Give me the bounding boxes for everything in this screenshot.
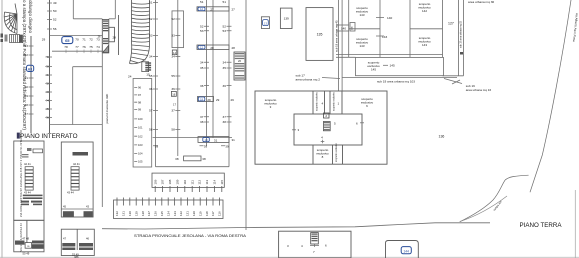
svg-text:34: 34 <box>223 61 227 65</box>
svg-text:31: 31 <box>232 138 236 142</box>
svg-text:91: 91 <box>25 76 29 80</box>
svg-text:70: 70 <box>75 38 79 42</box>
svg-text:47: 47 <box>63 237 66 241</box>
rounded box D with stamp 144 <box>386 241 419 258</box>
svg-text:12: 12 <box>200 7 203 11</box>
svg-text:27: 27 <box>210 7 214 11</box>
svg-text:37: 37 <box>200 115 204 119</box>
svg-text:scoperto esclusivo: scoperto esclusivo <box>335 142 338 162</box>
svg-text:50 49: 50 49 <box>23 251 30 255</box>
bottom building C <box>279 231 351 258</box>
svg-text:114: 114 <box>213 179 217 184</box>
svg-text:28: 28 <box>232 46 236 50</box>
svg-text:58: 58 <box>149 128 153 132</box>
box 139 <box>280 8 292 28</box>
svg-text:92: 92 <box>25 53 29 57</box>
svg-text:26: 26 <box>238 59 241 63</box>
left edge dark marks <box>1 34 8 43</box>
garage column 2 <box>61 142 94 256</box>
svg-text:130: 130 <box>128 211 132 216</box>
svg-text:108: 108 <box>168 179 172 184</box>
svg-text:o a stampa (297x420)in Formato: o a stampa (297x420)in Formato standard … <box>22 0 27 130</box>
leader to sub19 mq16 <box>444 79 462 85</box>
svg-text:89: 89 <box>25 94 29 98</box>
box 12-28 <box>197 45 235 50</box>
long vertical x=102 <box>101 35 103 207</box>
svg-text:127: 127 <box>147 211 151 216</box>
svg-text:52: 52 <box>149 17 153 21</box>
hatched stack + 15 <box>145 62 151 70</box>
svg-text:124: 124 <box>166 211 170 216</box>
svg-text:55: 55 <box>171 74 175 78</box>
building B outer <box>255 91 387 164</box>
svg-text:109: 109 <box>176 179 180 184</box>
svg-text:45: 45 <box>63 205 66 209</box>
svg-text:36: 36 <box>149 87 153 91</box>
svg-text:105: 105 <box>138 160 143 164</box>
svg-text:14: 14 <box>173 51 176 55</box>
svg-text:97: 97 <box>138 93 141 97</box>
svg-text:90: 90 <box>25 85 29 89</box>
bottom strip labels <box>316 148 329 159</box>
svg-text:area urbana mq 16: area urbana mq 16 <box>466 88 492 92</box>
svg-text:140: 140 <box>341 26 346 30</box>
svg-text:58: 58 <box>171 128 175 132</box>
svg-text:96: 96 <box>138 86 141 90</box>
svg-text:51: 51 <box>223 0 227 4</box>
parking strip 1 <box>152 173 224 192</box>
svg-text:17: 17 <box>173 103 176 107</box>
svg-text:12: 12 <box>200 46 203 50</box>
corridor horizontals <box>50 50 104 125</box>
box 135 <box>306 8 333 61</box>
svg-text:121: 121 <box>186 211 190 216</box>
svg-text:46: 46 <box>86 237 89 241</box>
stair bottom steps <box>10 35 23 43</box>
box 19-31 <box>198 137 235 143</box>
svg-text:38: 38 <box>223 120 227 124</box>
stair core block <box>102 15 118 55</box>
upper corridor outline <box>50 0 116 35</box>
svg-text:52: 52 <box>200 25 204 29</box>
svg-text:78: 78 <box>64 45 68 49</box>
svg-text:39: 39 <box>204 144 208 148</box>
svg-text:35: 35 <box>223 66 227 70</box>
svg-text:38: 38 <box>200 120 204 124</box>
svg-text:36: 36 <box>171 87 175 91</box>
svg-text:oblungo disegno: oblungo disegno <box>28 0 33 33</box>
svg-text:38: 38 <box>175 157 179 161</box>
svg-text:111: 111 <box>190 180 194 185</box>
svg-text:42: 42 <box>45 82 49 86</box>
right pair column ticks and labels <box>204 26 232 122</box>
svg-text:PIANO INTERRATO: PIANO INTERRATO <box>20 133 78 140</box>
svg-text:scoperto esclusivo: scoperto esclusivo <box>316 91 319 111</box>
svg-text:117: 117 <box>211 211 215 216</box>
corridor right line with parcel ticks <box>47 0 52 133</box>
svg-text:131: 131 <box>122 211 126 216</box>
svg-text:120: 120 <box>192 211 196 216</box>
svg-text:57: 57 <box>149 109 153 113</box>
number row 70-73 <box>75 38 100 42</box>
svg-text:34: 34 <box>149 55 153 59</box>
svg-text:142: 142 <box>422 9 427 13</box>
box 12-27 <box>197 7 235 12</box>
svg-text:51: 51 <box>200 0 204 4</box>
svg-text:29: 29 <box>231 98 235 102</box>
svg-text:72: 72 <box>89 38 93 42</box>
svg-text:43 44: 43 44 <box>24 190 31 194</box>
svg-text:27: 27 <box>232 7 236 11</box>
svg-text:143: 143 <box>422 43 427 47</box>
svg-text:28: 28 <box>113 36 117 40</box>
ticks 39 <box>153 145 225 147</box>
svg-text:29: 29 <box>216 98 220 102</box>
svg-text:34: 34 <box>200 61 204 65</box>
svg-text:area urbana mq 2: area urbana mq 2 <box>296 77 321 81</box>
svg-text:39: 39 <box>225 144 229 148</box>
svg-text:sub 19 area urbana mq 103: sub 19 area urbana mq 103 <box>377 79 415 83</box>
svg-text:43: 43 <box>86 205 89 209</box>
svg-text:126: 126 <box>154 211 158 216</box>
svg-text:53: 53 <box>200 29 204 33</box>
mid building vertical lines <box>153 0 246 230</box>
svg-text:101: 101 <box>138 126 143 130</box>
svg-text:145: 145 <box>371 67 376 71</box>
col1 lower content <box>15 241 44 249</box>
svg-text:100: 100 <box>138 117 143 121</box>
garage column 1 <box>14 141 44 252</box>
svg-text:36: 36 <box>200 84 204 88</box>
svg-text:45: 45 <box>45 107 49 111</box>
svg-text:41: 41 <box>45 73 49 77</box>
svg-text:135: 135 <box>317 33 323 37</box>
svg-text:110: 110 <box>183 179 187 184</box>
svg-text:87: 87 <box>25 112 29 116</box>
svg-text:77: 77 <box>75 45 79 49</box>
svg-text:65: 65 <box>65 38 70 43</box>
svg-text:88: 88 <box>25 103 29 107</box>
svg-text:118: 118 <box>205 211 209 216</box>
box 18-29 <box>198 97 235 102</box>
PIANO INTERRATO <box>17 133 20 139</box>
svg-text:125: 125 <box>160 211 164 216</box>
svg-text:33: 33 <box>171 34 175 38</box>
svg-text:75: 75 <box>89 45 93 49</box>
center double strip <box>339 0 343 91</box>
svg-text:18: 18 <box>200 98 203 102</box>
svg-text:136: 136 <box>439 135 445 139</box>
svg-text:119: 119 <box>198 211 202 216</box>
svg-text:52: 52 <box>223 25 227 29</box>
svg-text:129: 129 <box>134 211 138 216</box>
svg-text:sub 18 area urbana mq 92: sub 18 area urbana mq 92 <box>460 20 463 48</box>
svg-text:34: 34 <box>171 55 175 59</box>
svg-text:115: 115 <box>220 179 224 184</box>
svg-text:123: 123 <box>173 211 177 216</box>
tick dashes mid building col1 <box>153 3 180 130</box>
svg-text:40: 40 <box>45 65 49 69</box>
svg-text:46: 46 <box>45 116 49 120</box>
svg-text:74: 74 <box>96 45 100 49</box>
svg-text:79: 79 <box>45 55 49 59</box>
svg-text:104: 104 <box>138 152 143 156</box>
svg-text:71: 71 <box>82 38 86 42</box>
page left border <box>1 0 3 258</box>
svg-text:29: 29 <box>42 38 46 42</box>
blue stamp 65 <box>62 37 73 44</box>
svg-text:52: 52 <box>53 18 57 22</box>
svg-text:122: 122 <box>179 211 183 216</box>
svg-text:143: 143 <box>382 35 387 39</box>
svg-text:51: 51 <box>149 1 153 5</box>
svg-text:143: 143 <box>359 44 364 48</box>
svg-text:144: 144 <box>404 249 410 253</box>
svg-text:STRADA PROVINCIALE JESOLANA -: STRADA PROVINCIALE JESOLANA - VIA ROMA D… <box>134 234 247 238</box>
svg-text:73: 73 <box>96 38 100 42</box>
svg-text:76: 76 <box>82 45 86 49</box>
cell 145 <box>356 58 444 76</box>
svg-text:39: 39 <box>155 144 159 148</box>
svg-text:PIANO TERRA: PIANO TERRA <box>520 222 563 229</box>
svg-text:pianord massetto 990: pianord massetto 990 <box>105 93 109 123</box>
svg-text:42 41: 42 41 <box>73 162 80 166</box>
svg-text:29: 29 <box>207 98 211 102</box>
curved ramp band <box>130 0 150 64</box>
svg-text:139: 139 <box>284 17 289 21</box>
svg-text:35: 35 <box>200 66 204 70</box>
blue stamp 63 <box>27 65 34 71</box>
svg-text:44: 44 <box>45 99 49 103</box>
svg-text:37: 37 <box>171 109 175 113</box>
svg-text:53: 53 <box>149 34 153 38</box>
svg-text:area urbana mq 36: area urbana mq 36 <box>468 0 494 4</box>
small boxes 14 16 17 <box>171 50 176 96</box>
svg-text:112: 112 <box>198 179 202 184</box>
svg-text:52: 52 <box>171 17 175 21</box>
svg-text:63: 63 <box>28 67 32 71</box>
svg-text:37: 37 <box>223 115 227 119</box>
svg-text:53: 53 <box>223 29 227 33</box>
svg-text:50: 50 <box>53 9 57 13</box>
svg-text:47 48: 47 48 <box>22 236 29 240</box>
svg-text:145: 145 <box>390 64 395 68</box>
svg-text:103: 103 <box>138 143 143 147</box>
sub 17 note <box>296 74 321 82</box>
spiral stair top-left <box>4 4 17 34</box>
svg-text:132: 132 <box>115 211 119 216</box>
svg-text:127: 127 <box>448 22 454 26</box>
svg-text:49: 49 <box>53 1 57 5</box>
svg-text:128: 128 <box>141 211 145 216</box>
small box with blue stamp near 139 <box>261 17 269 29</box>
parking strip 2 <box>114 198 224 219</box>
svg-text:102: 102 <box>138 134 143 138</box>
number row 78-74 <box>64 45 100 49</box>
svg-text:106: 106 <box>153 179 157 184</box>
mid building closure <box>153 137 232 139</box>
svg-text:56: 56 <box>53 27 57 31</box>
blue format note rotated text <box>22 0 33 130</box>
svg-text:36: 36 <box>223 84 227 88</box>
svg-text:93: 93 <box>25 44 29 48</box>
svg-text:42 41: 42 41 <box>24 162 31 166</box>
box 38 <box>175 156 206 161</box>
svg-text:55: 55 <box>149 74 153 78</box>
svg-text:19: 19 <box>205 138 208 142</box>
col1 content <box>22 148 43 158</box>
page right border <box>574 190 576 258</box>
svg-text:143: 143 <box>359 13 364 17</box>
svg-text:99: 99 <box>138 108 141 112</box>
inner items <box>292 113 364 143</box>
svg-text:113: 113 <box>205 179 209 184</box>
svg-text:140: 140 <box>387 16 392 20</box>
page bottom border <box>0 256 579 258</box>
svg-text:98: 98 <box>138 100 141 104</box>
svg-text:28: 28 <box>210 46 214 50</box>
svg-text:scoperto esclusivo: scoperto esclusivo <box>333 91 336 111</box>
svg-text:107: 107 <box>161 179 165 184</box>
svg-text:38: 38 <box>202 157 206 161</box>
corridor left line with parcel ticks <box>29 36 34 133</box>
svg-text:16: 16 <box>172 92 175 96</box>
hatched lift block <box>234 52 245 80</box>
svg-text:43 44: 43 44 <box>67 190 74 194</box>
right strips <box>443 0 464 76</box>
diagonal via <box>530 0 571 192</box>
svg-text:31: 31 <box>214 138 218 142</box>
svg-text:43: 43 <box>45 90 49 94</box>
col2 content <box>73 152 89 156</box>
ticks column 96-105 box <box>133 79 152 168</box>
svg-text:24: 24 <box>128 75 132 79</box>
road line <box>102 223 490 229</box>
svg-text:116: 116 <box>218 211 222 216</box>
top right cells <box>336 0 443 57</box>
